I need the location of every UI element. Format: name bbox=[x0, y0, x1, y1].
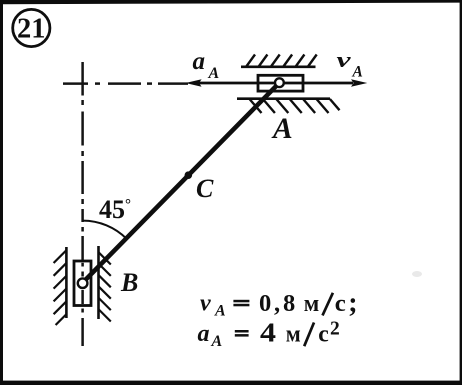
given data line 1: v_A = 0,8 m/s; bbox=[200, 287, 358, 319]
svg-text:с: с bbox=[335, 291, 346, 317]
label a_A bbox=[193, 48, 220, 82]
svg-text:с: с bbox=[318, 321, 329, 347]
horizontal dash-dot centerline bbox=[63, 82, 188, 85]
svg-text:45°: 45° bbox=[99, 195, 131, 224]
svg-text:a: a bbox=[193, 48, 206, 75]
svg-text:B: B bbox=[120, 268, 138, 297]
svg-text:A: A bbox=[208, 65, 220, 82]
connecting rod AB bbox=[83, 83, 280, 283]
svg-text:м: м bbox=[304, 291, 320, 317]
svg-text:A: A bbox=[271, 113, 293, 145]
fixed guide: lower hatched support (top) bbox=[237, 99, 340, 113]
arrowhead v_A (right) bbox=[351, 79, 367, 86]
right wall of vertical guide at B bbox=[98, 246, 111, 322]
pin of slider B bbox=[78, 278, 88, 288]
45 degree arc bbox=[83, 221, 127, 239]
arrowhead a_A (left) bbox=[185, 79, 201, 86]
dash-dot centerline through slider B bbox=[81, 263, 84, 346]
faint scan smudge bbox=[412, 271, 422, 277]
svg-text:2: 2 bbox=[330, 319, 340, 340]
svg-text:A: A bbox=[211, 333, 223, 350]
label v_A bbox=[337, 47, 363, 80]
svg-text:21: 21 bbox=[17, 13, 46, 44]
slider block A bbox=[258, 75, 303, 91]
svg-text:0,8: 0,8 bbox=[259, 290, 298, 317]
svg-text:м: м bbox=[286, 321, 301, 347]
pin of slider A bbox=[275, 78, 284, 87]
problem number badge 21 bbox=[13, 9, 50, 46]
fixed guide: upper hatched support (top) bbox=[241, 55, 317, 67]
vertical dash-dot centerline bbox=[81, 62, 84, 267]
given data line 2: a_A = 4 m/s^2 bbox=[198, 317, 340, 350]
svg-text:A: A bbox=[352, 64, 363, 81]
acceleration/velocity axis line through A bbox=[196, 82, 353, 85]
point C on rod bbox=[185, 171, 193, 179]
svg-text:C: C bbox=[196, 174, 214, 203]
svg-text:v: v bbox=[337, 47, 351, 72]
svg-text:a: a bbox=[198, 321, 210, 347]
svg-text:A: A bbox=[214, 302, 226, 319]
svg-text:4: 4 bbox=[260, 317, 276, 348]
svg-text:v: v bbox=[200, 291, 211, 317]
slider block B bbox=[74, 261, 91, 306]
left wall of vertical guide at B bbox=[54, 247, 67, 325]
svg-text:;: ; bbox=[348, 287, 357, 318]
